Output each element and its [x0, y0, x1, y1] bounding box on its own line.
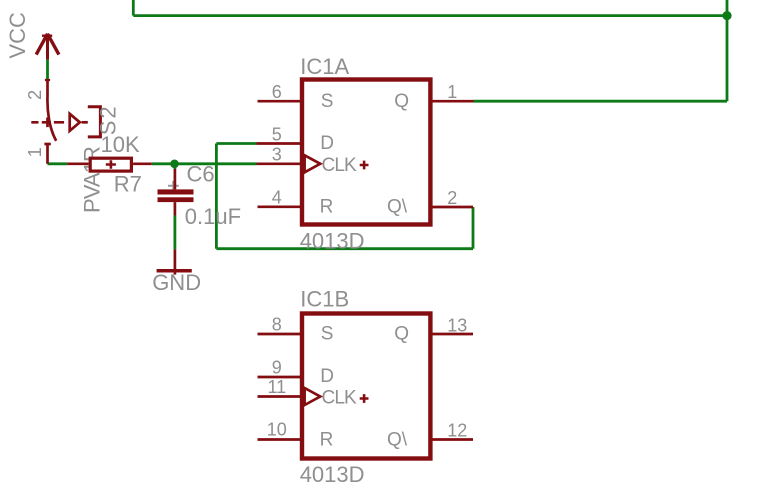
svg-text:12: 12 [447, 420, 467, 440]
pin 2 lead [46, 79, 49, 96]
actuator dashed line [31, 121, 64, 124]
wire resistor to CLK pin [152, 162, 257, 165]
pin 2 end tick [45, 79, 50, 81]
svg-text:R7: R7 [114, 172, 142, 197]
actuator link dash [82, 121, 88, 124]
wire row from switch to resistor [48, 162, 68, 165]
svg-text:1: 1 [25, 147, 45, 157]
IC1B origin cross [360, 394, 369, 403]
IC1A pin 2 stub [432, 206, 474, 209]
svg-text:13: 13 [447, 316, 467, 336]
IC1B body [302, 314, 430, 459]
origin cross S2 [42, 118, 51, 128]
svg-text:8: 8 [272, 314, 282, 334]
svg-text:6: 6 [272, 82, 282, 102]
svg-text:1: 1 [447, 82, 457, 102]
svg-text:3: 3 [272, 145, 282, 165]
wire right vertical [726, 0, 729, 101]
pin 1 lead [46, 144, 49, 164]
svg-text:4013D: 4013D [300, 228, 365, 253]
svg-text:D: D [320, 366, 334, 387]
svg-text:5: 5 [272, 124, 282, 144]
flip-flop IC1A [257, 54, 474, 253]
svg-text:Q: Q [394, 91, 409, 112]
wire VCC to switch pin 2 [46, 60, 49, 80]
wire top-left vertical [132, 0, 135, 16]
lever [47, 96, 56, 141]
IC1A clock triangle [305, 155, 321, 172]
capacitor C6 plates [158, 189, 194, 194]
supply symbol VCC arrow [36, 34, 59, 60]
junction dot top-right [722, 11, 731, 20]
IC1B clock triangle [305, 388, 321, 405]
capacitor C6 bottom lead [174, 202, 177, 215]
svg-text:IC1B: IC1B [300, 287, 349, 312]
pin 1 end tick [44, 143, 50, 146]
IC1A pin 6 stub [258, 100, 302, 103]
IC1B pin 12 stub [432, 438, 474, 441]
IC1B pin 9 stub [258, 376, 302, 379]
svg-text:C6: C6 [187, 162, 215, 187]
wire D feedback vertical [215, 144, 218, 249]
svg-text:2: 2 [25, 90, 45, 100]
svg-text:4013D: 4013D [300, 462, 365, 487]
svg-text:Q\: Q\ [387, 429, 408, 450]
svg-text:GND: GND [152, 270, 201, 295]
svg-text:2: 2 [447, 188, 457, 208]
capacitor C6 origin cross [168, 181, 179, 191]
svg-text:10: 10 [267, 419, 287, 439]
capacitor C6 top lead [174, 169, 177, 189]
wire Q to right vertical [474, 100, 728, 103]
switch S2 [31, 79, 100, 164]
wire feedback bottom horizontal [216, 247, 473, 250]
IC1A pin 5 stub [257, 142, 302, 145]
svg-text:D: D [320, 133, 334, 154]
svg-text:VCC: VCC [5, 12, 30, 59]
resistor R7 leads [67, 162, 152, 165]
resistor R7 body [90, 158, 131, 171]
IC1A pin 4 stub [258, 205, 302, 208]
flip-flop IC1B [258, 287, 474, 487]
svg-text:S: S [321, 324, 334, 345]
svg-text:R: R [320, 197, 334, 218]
svg-text:S2: S2 [96, 104, 121, 135]
svg-text:CLK: CLK [322, 388, 357, 409]
ground symbol GND [157, 249, 192, 274]
svg-text:9: 9 [272, 357, 282, 377]
IC1A origin cross [360, 161, 369, 170]
junction dot at C6 [170, 160, 179, 169]
IC1A pin 3 stub [257, 162, 302, 165]
IC1B pin 8 stub [258, 333, 302, 336]
origin cross R7 [106, 160, 116, 169]
IC1B pin 11 stub [258, 395, 302, 398]
IC1A body [302, 80, 430, 225]
svg-text:Q: Q [394, 324, 409, 345]
button bracket [88, 107, 101, 137]
svg-text:R: R [320, 429, 334, 450]
IC1A pin 1 stub [432, 100, 474, 103]
actuator triangle [70, 114, 80, 131]
svg-text:Q\: Q\ [387, 197, 408, 218]
svg-text:S: S [321, 91, 334, 112]
wire D row to pin 5 [216, 142, 256, 145]
svg-text:10K: 10K [101, 132, 140, 157]
svg-text:11: 11 [267, 377, 286, 397]
wire junction to capacitor [173, 164, 176, 169]
wire feedback right vertical to Q\ [472, 207, 475, 249]
svg-text:IC1A: IC1A [300, 54, 349, 79]
svg-text:0.1uF: 0.1uF [185, 204, 241, 229]
wire top horizontal [133, 14, 727, 17]
wire capacitor to ground [173, 216, 176, 250]
svg-text:4: 4 [272, 188, 282, 208]
svg-text:CLK: CLK [322, 155, 357, 176]
IC1B pin 10 stub [258, 438, 302, 441]
IC1B pin 13 stub [432, 333, 474, 336]
